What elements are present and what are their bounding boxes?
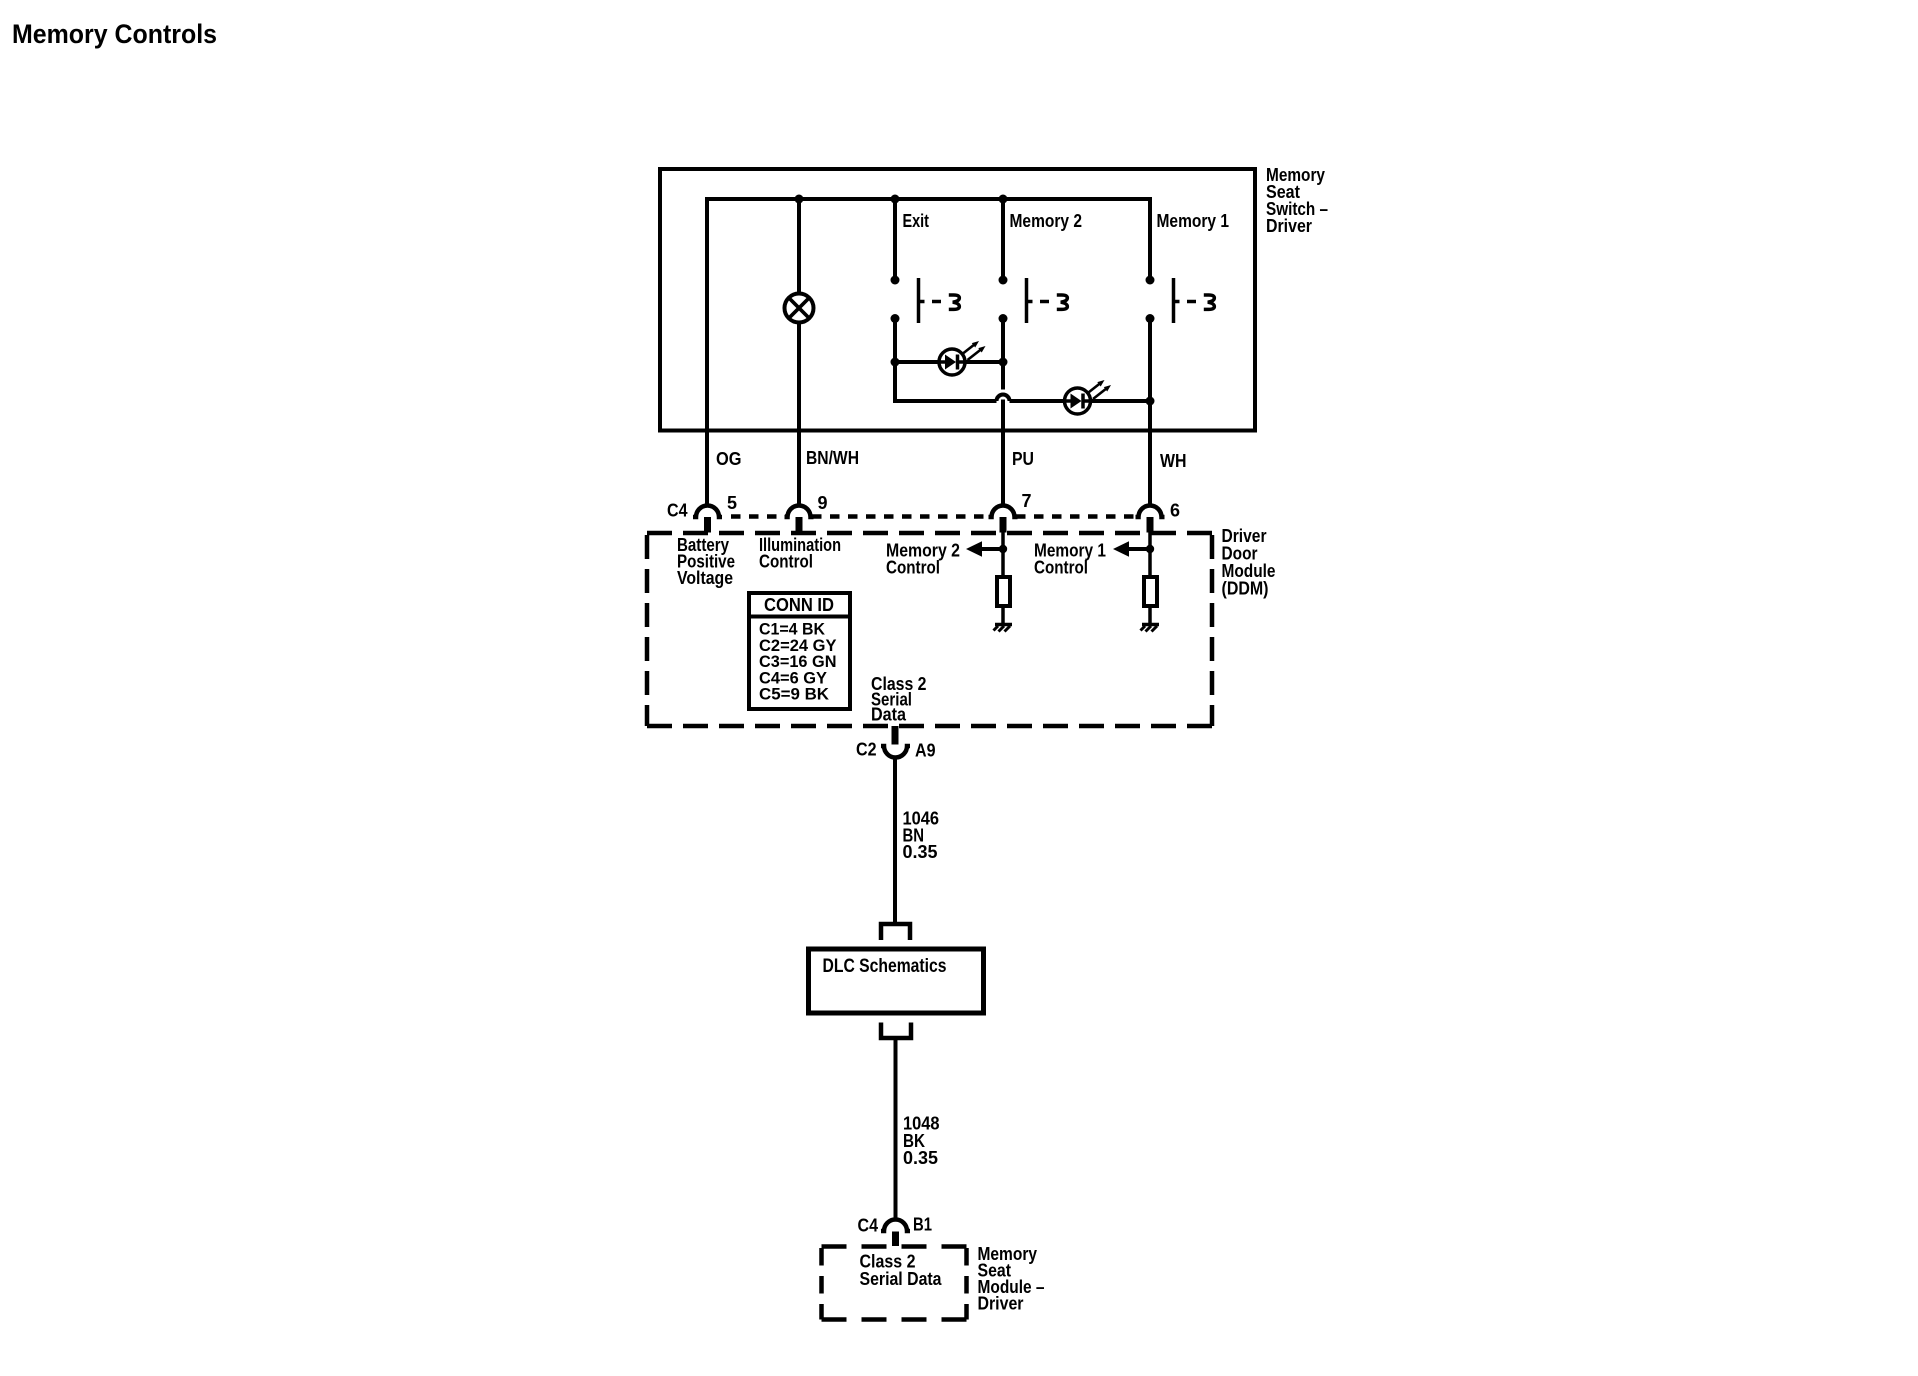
connector dashed line segment 2 (812, 514, 990, 519)
pin 7 stub (1000, 517, 1007, 533)
wire Memory 1 upper (1148, 197, 1152, 280)
wire 1046 BN (893, 758, 897, 925)
arrow Memory 1 control (1113, 541, 1150, 556)
svg-text:C4: C4 (858, 1216, 879, 1236)
wire Exit switch upper (893, 197, 897, 280)
switch Memory 2 (1027, 278, 1068, 323)
svg-text:Data: Data (871, 705, 907, 725)
off-page bracket below DLC box (881, 1023, 911, 1039)
svg-text:Exit: Exit (903, 211, 930, 231)
junction dot Memory2 switch top (999, 276, 1008, 285)
ground G1 (994, 625, 1013, 632)
pin 9 stub (796, 517, 803, 533)
pin 5 stub (704, 517, 711, 533)
svg-text:Memory 1: Memory 1 (1157, 211, 1230, 231)
svg-text:C2: C2 (856, 740, 877, 760)
label Memory Seat Module - Driver (978, 1244, 1045, 1314)
svg-text:0.35: 0.35 (903, 842, 938, 862)
svg-text:WH: WH (1160, 451, 1187, 471)
wire BN/WH upper (to lamp) (797, 197, 801, 294)
svg-text:(DDM): (DDM) (1222, 579, 1269, 599)
connector dashed line segment 1 (731, 514, 786, 519)
switch Exit (919, 278, 960, 323)
svg-text:CONN ID: CONN ID (764, 595, 834, 615)
wire BN/WH lower (lamp to connector) (797, 322, 801, 505)
label Memory 2 Control (886, 541, 960, 578)
wire LED2 row left (895, 399, 997, 403)
wire PU below hop (1001, 400, 1005, 506)
serial data wire stub through DDM edge (892, 726, 899, 745)
wire LED1 row (895, 360, 1003, 364)
svg-text:Memory Controls: Memory Controls (12, 19, 217, 49)
connector pin 7 bump (989, 506, 1018, 518)
wire hop over PU (997, 395, 1010, 401)
junction dot arrow/WH (1146, 545, 1154, 553)
off-page bracket above DLC box (881, 924, 910, 940)
arrow Memory 2 control (966, 541, 1003, 556)
svg-text:Control: Control (886, 558, 940, 578)
svg-text:Memory 2: Memory 2 (1010, 211, 1083, 231)
wire 1048 BK (894, 1038, 898, 1219)
DLC Schematics box (809, 949, 984, 1013)
svg-text:B1: B1 (913, 1215, 932, 1235)
wire pin7 to resistor (1001, 532, 1005, 577)
svg-text:Control: Control (759, 552, 813, 572)
svg-text:5: 5 (727, 493, 737, 513)
CONN ID table (749, 593, 850, 709)
svg-text:C5=9 BK: C5=9 BK (759, 685, 830, 704)
wire resistor R2 to ground (1148, 606, 1152, 623)
junction dot Exit switch bottom (891, 314, 900, 323)
junction dot arrow/PU (999, 545, 1007, 553)
junction dot Memory1 switch top (1146, 276, 1155, 285)
Memory Seat Switch - Driver box (660, 169, 1255, 431)
label Memory Seat Switch - Driver (1266, 165, 1328, 236)
svg-text:Driver: Driver (978, 1294, 1024, 1314)
connector dashed line segment 3 (1016, 514, 1137, 519)
junction dot LED1/Exit (891, 358, 900, 367)
connector pin 6 bump (1136, 506, 1165, 518)
wire Memory 1 lower / WH (1148, 319, 1152, 506)
wire Memory 2 lower (1001, 319, 1005, 390)
svg-text:6: 6 (1170, 501, 1180, 521)
LED D1 (939, 341, 986, 375)
CONN ID rows (759, 620, 837, 704)
resistor R1 (memory 2 pull-down) (997, 577, 1010, 606)
junction dot Memory2 switch bottom (999, 314, 1008, 323)
connector pin 9 bump (785, 506, 814, 518)
label Driver Door Module (DDM) (1222, 526, 1276, 599)
wire pin6 to resistor (1148, 532, 1152, 577)
illumination lamp (785, 294, 814, 323)
label Memory 1 Control (1034, 541, 1106, 578)
wire Memory 2 upper (1001, 197, 1005, 280)
label Battery Positive Voltage (677, 535, 735, 588)
label Illumination Control (759, 535, 841, 572)
wire label 1046 BN 0.35 (903, 809, 940, 863)
connector C4/B1 cap (881, 1220, 910, 1232)
wire label 1048 BK 0.35 (903, 1114, 940, 1169)
svg-text:C4: C4 (667, 501, 688, 521)
switch Memory 1 (1174, 278, 1215, 323)
svg-text:Voltage: Voltage (677, 568, 733, 588)
connector pin 5 bump (693, 506, 722, 518)
junction dot bus/Exit (891, 195, 900, 204)
resistor R2 (memory 1 pull-down) (1144, 577, 1157, 606)
svg-text:DLC Schematics: DLC Schematics (823, 956, 947, 977)
Driver Door Module dashed box (647, 533, 1212, 726)
svg-text:9: 9 (818, 493, 828, 513)
connector C2/A9 cup (881, 746, 910, 758)
ground G2 (1141, 625, 1160, 632)
svg-text:A9: A9 (915, 741, 936, 761)
svg-text:OG: OG (716, 449, 742, 469)
wire LED2 row right (1010, 399, 1151, 403)
svg-text:BN/WH: BN/WH (806, 448, 859, 468)
svg-text:7: 7 (1022, 491, 1032, 511)
label Class 2 Serial Data (DDM) (871, 674, 927, 725)
wire resistor R1 to ground (1001, 606, 1005, 623)
label Class 2 Serial Data (MSM) (860, 1252, 943, 1290)
svg-text:Driver: Driver (1266, 216, 1312, 236)
Memory Seat Module dashed box (822, 1247, 967, 1320)
svg-text:PU: PU (1012, 449, 1034, 469)
junction dot bus/Memory2 (999, 195, 1008, 204)
svg-text:0.35: 0.35 (903, 1148, 938, 1168)
wire Exit switch lower to LED2 row (893, 319, 897, 404)
pin 6 stub (1147, 517, 1154, 533)
LED D2 (1065, 380, 1112, 414)
svg-text:Serial Data: Serial Data (860, 1269, 943, 1289)
junction dot LED2/Memory1 (1146, 397, 1155, 406)
junction dot LED1/Memory2 (999, 358, 1008, 367)
wire bus inside switch box (705, 197, 1152, 201)
junction dot Exit switch top (891, 276, 900, 285)
junction dot bus/lamp (795, 195, 804, 204)
wire OG vertical (705, 197, 709, 505)
svg-text:Control: Control (1034, 558, 1088, 578)
pin B1 stub (892, 1232, 899, 1247)
junction dot Memory1 switch bottom (1146, 314, 1155, 323)
